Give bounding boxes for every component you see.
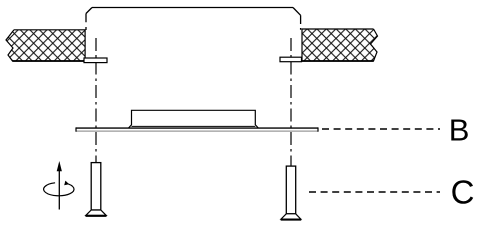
- ceiling panel left (hatched): [6, 30, 85, 61]
- mounting clamp right: [280, 57, 302, 62]
- svg-text:B: B: [449, 112, 470, 147]
- center line right: [290, 38, 292, 167]
- trim plate B: [76, 127, 318, 131]
- center line left: [95, 38, 97, 164]
- screw left: [86, 163, 107, 216]
- enclosure back box: [86, 8, 301, 31]
- svg-text:C: C: [451, 174, 475, 211]
- rotation arrow: [44, 161, 74, 210]
- device body: [129, 110, 259, 128]
- leader line C: [309, 191, 440, 193]
- leader line B: [322, 128, 440, 130]
- ceiling panel right (hatched): [302, 29, 378, 61]
- mounting clamp left: [84, 58, 107, 63]
- screw right: [281, 166, 302, 220]
